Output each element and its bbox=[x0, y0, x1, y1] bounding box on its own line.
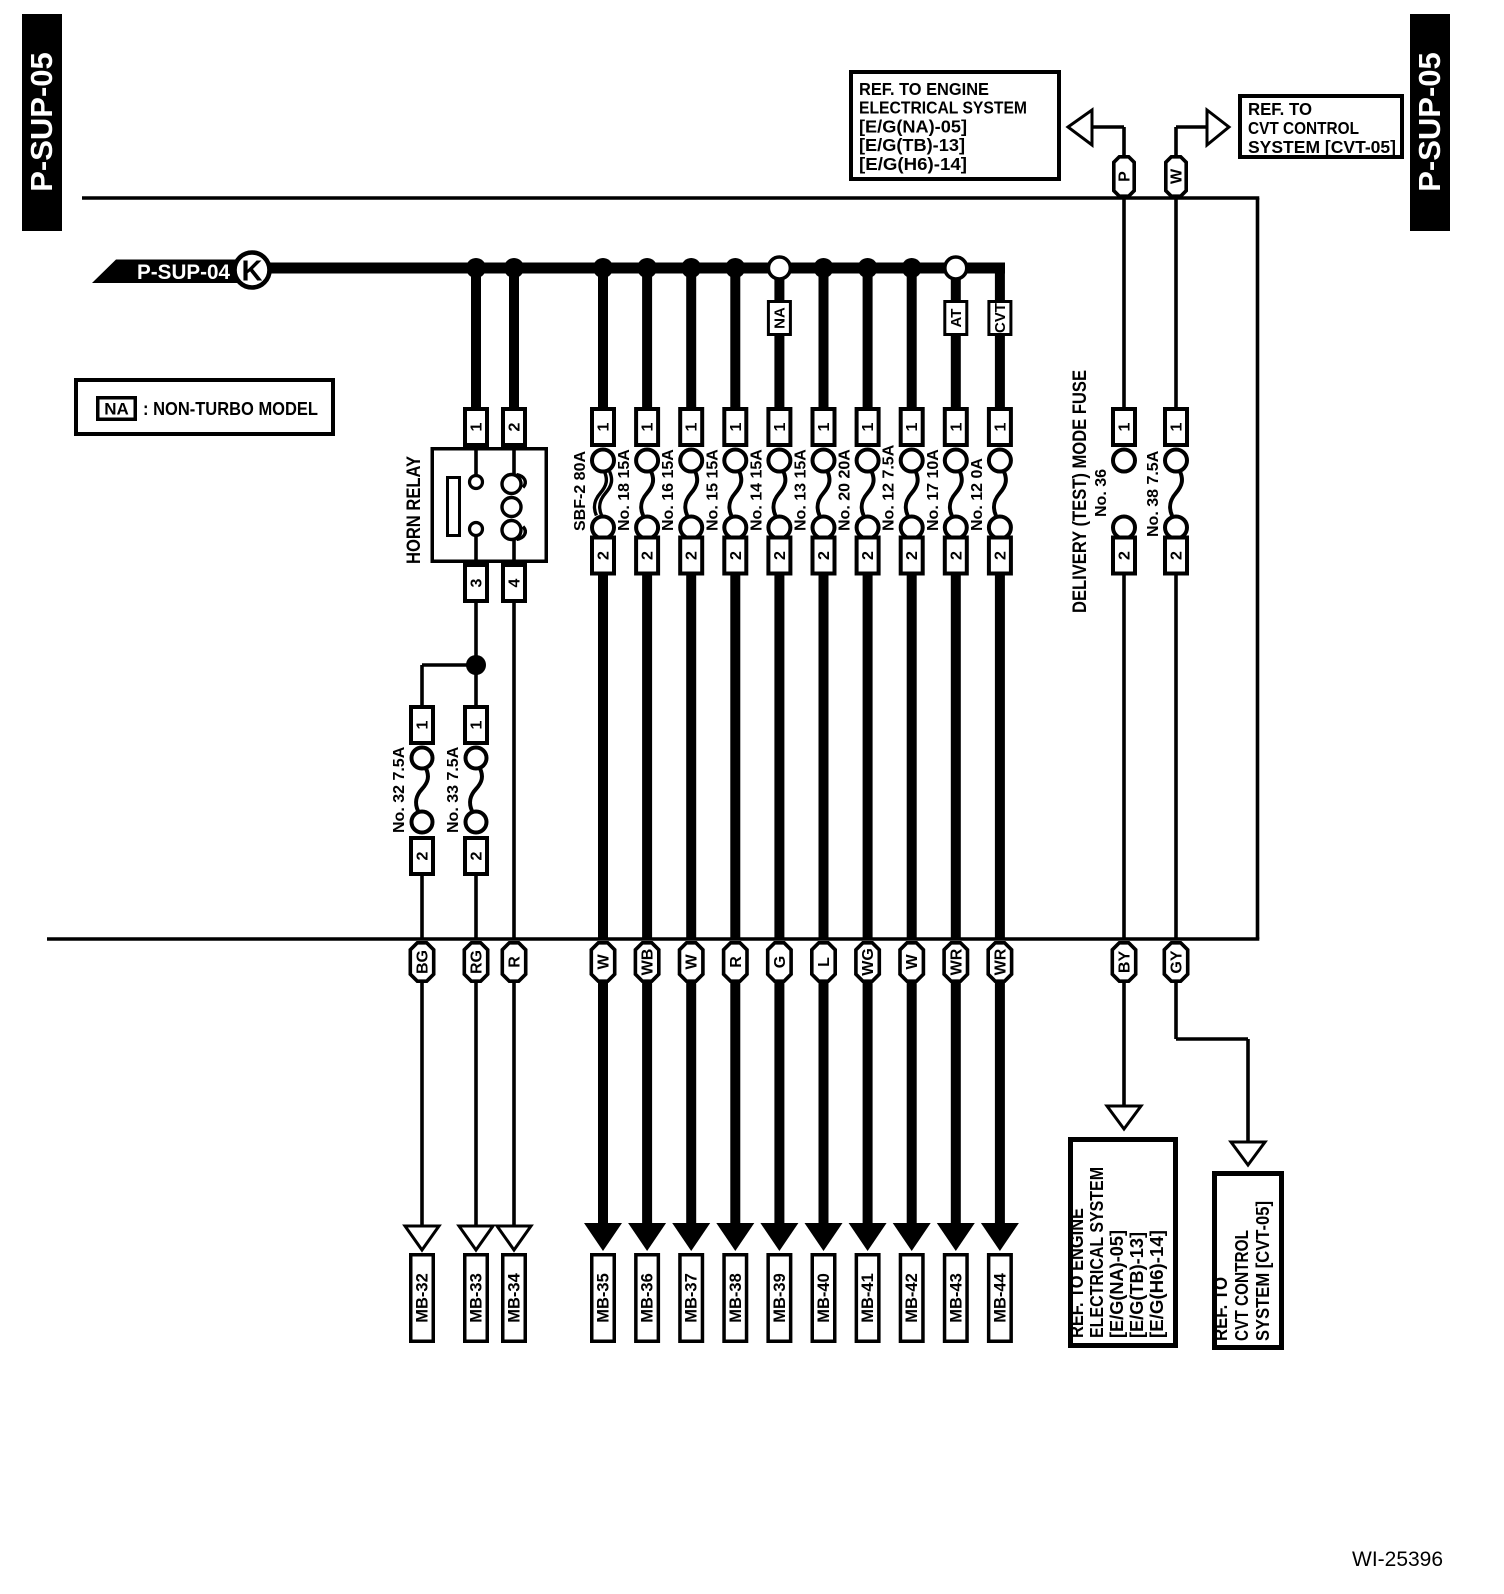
svg-text:AT: AT bbox=[948, 309, 965, 328]
svg-text:MB-32: MB-32 bbox=[414, 1273, 432, 1323]
svg-text:2: 2 bbox=[948, 551, 965, 560]
svg-text:2: 2 bbox=[860, 551, 877, 560]
svg-text:No. 38 7.5A: No. 38 7.5A bbox=[1145, 450, 1162, 537]
svg-text:MB-33: MB-33 bbox=[468, 1273, 486, 1323]
svg-text:G: G bbox=[772, 956, 789, 968]
svg-text:WG: WG bbox=[860, 948, 877, 976]
svg-text:No. 36: No. 36 bbox=[1093, 469, 1110, 517]
svg-text:W: W bbox=[1169, 168, 1186, 184]
svg-text:[E/G(NA)-05]: [E/G(NA)-05] bbox=[1107, 1230, 1127, 1338]
svg-text:GY: GY bbox=[1169, 950, 1186, 973]
svg-text:NA: NA bbox=[771, 307, 788, 329]
svg-text:1: 1 bbox=[904, 422, 921, 431]
svg-text:2: 2 bbox=[992, 551, 1009, 560]
svg-text:[E/G(H6)-14]: [E/G(H6)-14] bbox=[859, 154, 967, 174]
svg-text:P-SUP-04: P-SUP-04 bbox=[137, 261, 230, 284]
svg-text:2: 2 bbox=[596, 551, 613, 560]
svg-text:WB: WB bbox=[640, 949, 657, 976]
svg-text:SYSTEM [CVT-05]: SYSTEM [CVT-05] bbox=[1253, 1201, 1273, 1341]
svg-text:1: 1 bbox=[596, 422, 613, 431]
svg-text:REF. TO ENGINE: REF. TO ENGINE bbox=[1067, 1208, 1087, 1338]
svg-text:3: 3 bbox=[469, 578, 486, 587]
svg-text:1: 1 bbox=[1169, 422, 1186, 431]
svg-text:MB-43: MB-43 bbox=[947, 1273, 965, 1323]
svg-text:[E/G(NA)-05]: [E/G(NA)-05] bbox=[859, 116, 967, 136]
svg-text:2: 2 bbox=[904, 551, 921, 560]
svg-text:W: W bbox=[684, 954, 701, 970]
svg-text:No. 33 7.5A: No. 33 7.5A bbox=[445, 746, 462, 833]
svg-text:DELIVERY (TEST) MODE FUSE: DELIVERY (TEST) MODE FUSE bbox=[1069, 370, 1091, 613]
svg-text:P: P bbox=[1117, 171, 1134, 182]
svg-text:P-SUP-05: P-SUP-05 bbox=[1412, 52, 1447, 192]
svg-text:1: 1 bbox=[948, 422, 965, 431]
svg-text:No. 12 7.5A: No. 12 7.5A bbox=[881, 444, 898, 531]
svg-text:SYSTEM [CVT-05]: SYSTEM [CVT-05] bbox=[1248, 137, 1396, 157]
svg-text:W: W bbox=[596, 954, 613, 970]
svg-text:R: R bbox=[728, 956, 745, 968]
svg-text:MB-44: MB-44 bbox=[991, 1272, 1009, 1322]
svg-text:No. 32 7.5A: No. 32 7.5A bbox=[391, 746, 408, 833]
svg-text:MB-37: MB-37 bbox=[683, 1273, 701, 1323]
svg-text:CVT CONTROL: CVT CONTROL bbox=[1232, 1230, 1252, 1341]
svg-text:ELECTRICAL SYSTEM: ELECTRICAL SYSTEM bbox=[859, 98, 1027, 118]
svg-text:SBF-2 80A: SBF-2 80A bbox=[572, 451, 589, 531]
svg-text:R: R bbox=[507, 956, 524, 968]
svg-text:1: 1 bbox=[860, 422, 877, 431]
svg-text:[E/G(TB)-13]: [E/G(TB)-13] bbox=[859, 135, 965, 155]
svg-text:MB-42: MB-42 bbox=[903, 1273, 921, 1323]
svg-text:REF. TO ENGINE: REF. TO ENGINE bbox=[859, 79, 989, 99]
svg-text:[E/G(H6)-14]: [E/G(H6)-14] bbox=[1147, 1230, 1167, 1338]
svg-text:1: 1 bbox=[415, 720, 432, 729]
svg-text:MB-41: MB-41 bbox=[859, 1273, 877, 1323]
svg-text:WR: WR bbox=[948, 948, 965, 975]
svg-text:RG: RG bbox=[469, 950, 486, 974]
svg-text:CVT CONTROL: CVT CONTROL bbox=[1248, 118, 1359, 138]
svg-text:NA: NA bbox=[104, 400, 129, 419]
svg-text:MB-39: MB-39 bbox=[771, 1273, 789, 1323]
svg-text:MB-35: MB-35 bbox=[595, 1273, 613, 1323]
svg-text:1: 1 bbox=[640, 422, 657, 431]
svg-text:2: 2 bbox=[816, 551, 833, 560]
svg-text:No. 16 15A: No. 16 15A bbox=[660, 449, 677, 531]
svg-text:1: 1 bbox=[469, 422, 486, 431]
svg-text:REF. TO: REF. TO bbox=[1248, 99, 1312, 119]
svg-text:W: W bbox=[904, 954, 921, 970]
svg-text:BG: BG bbox=[415, 950, 432, 974]
svg-text:WI-25396: WI-25396 bbox=[1352, 1548, 1443, 1571]
svg-text:1: 1 bbox=[684, 422, 701, 431]
svg-text:No. 18 15A: No. 18 15A bbox=[616, 449, 633, 531]
svg-text:CVT: CVT bbox=[992, 303, 1009, 333]
svg-text:K: K bbox=[242, 256, 263, 288]
svg-text:No. 17 10A: No. 17 10A bbox=[925, 449, 942, 531]
svg-text:P-SUP-05: P-SUP-05 bbox=[24, 52, 59, 192]
svg-text:ELECTRICAL SYSTEM: ELECTRICAL SYSTEM bbox=[1087, 1167, 1107, 1338]
svg-text:2: 2 bbox=[640, 551, 657, 560]
svg-text:No. 14 15A: No. 14 15A bbox=[748, 449, 765, 531]
svg-text:2: 2 bbox=[728, 551, 745, 560]
svg-text:REF. TO: REF. TO bbox=[1211, 1277, 1231, 1341]
svg-text:1: 1 bbox=[469, 720, 486, 729]
svg-text:1: 1 bbox=[816, 422, 833, 431]
svg-text:HORN RELAY: HORN RELAY bbox=[404, 456, 425, 564]
svg-text:2: 2 bbox=[772, 551, 789, 560]
svg-text:1: 1 bbox=[992, 422, 1009, 431]
svg-text:1: 1 bbox=[728, 422, 745, 431]
svg-text:No. 20 20A: No. 20 20A bbox=[837, 449, 854, 531]
svg-text:No. 13 15A: No. 13 15A bbox=[793, 449, 810, 531]
svg-text:2: 2 bbox=[1117, 551, 1134, 560]
svg-text:[E/G(TB)-13]: [E/G(TB)-13] bbox=[1127, 1232, 1147, 1338]
svg-text:: NON-TURBO MODEL: : NON-TURBO MODEL bbox=[143, 399, 318, 419]
svg-text:4: 4 bbox=[507, 578, 524, 587]
svg-text:2: 2 bbox=[1169, 551, 1186, 560]
svg-text:MB-34: MB-34 bbox=[506, 1272, 524, 1322]
svg-text:2: 2 bbox=[469, 851, 486, 860]
svg-text:2: 2 bbox=[415, 851, 432, 860]
svg-text:BY: BY bbox=[1117, 951, 1134, 974]
svg-text:1: 1 bbox=[1117, 422, 1134, 431]
svg-text:MB-38: MB-38 bbox=[727, 1273, 745, 1323]
svg-text:MB-36: MB-36 bbox=[639, 1273, 657, 1323]
svg-text:MB-40: MB-40 bbox=[815, 1273, 833, 1323]
svg-text:WR: WR bbox=[992, 948, 1009, 975]
svg-text:No. 15 15A: No. 15 15A bbox=[704, 449, 721, 531]
svg-text:1: 1 bbox=[772, 422, 789, 431]
svg-text:2: 2 bbox=[507, 422, 524, 431]
svg-text:L: L bbox=[816, 957, 833, 967]
svg-text:2: 2 bbox=[684, 551, 701, 560]
svg-text:No. 12 0A: No. 12 0A bbox=[969, 458, 986, 531]
